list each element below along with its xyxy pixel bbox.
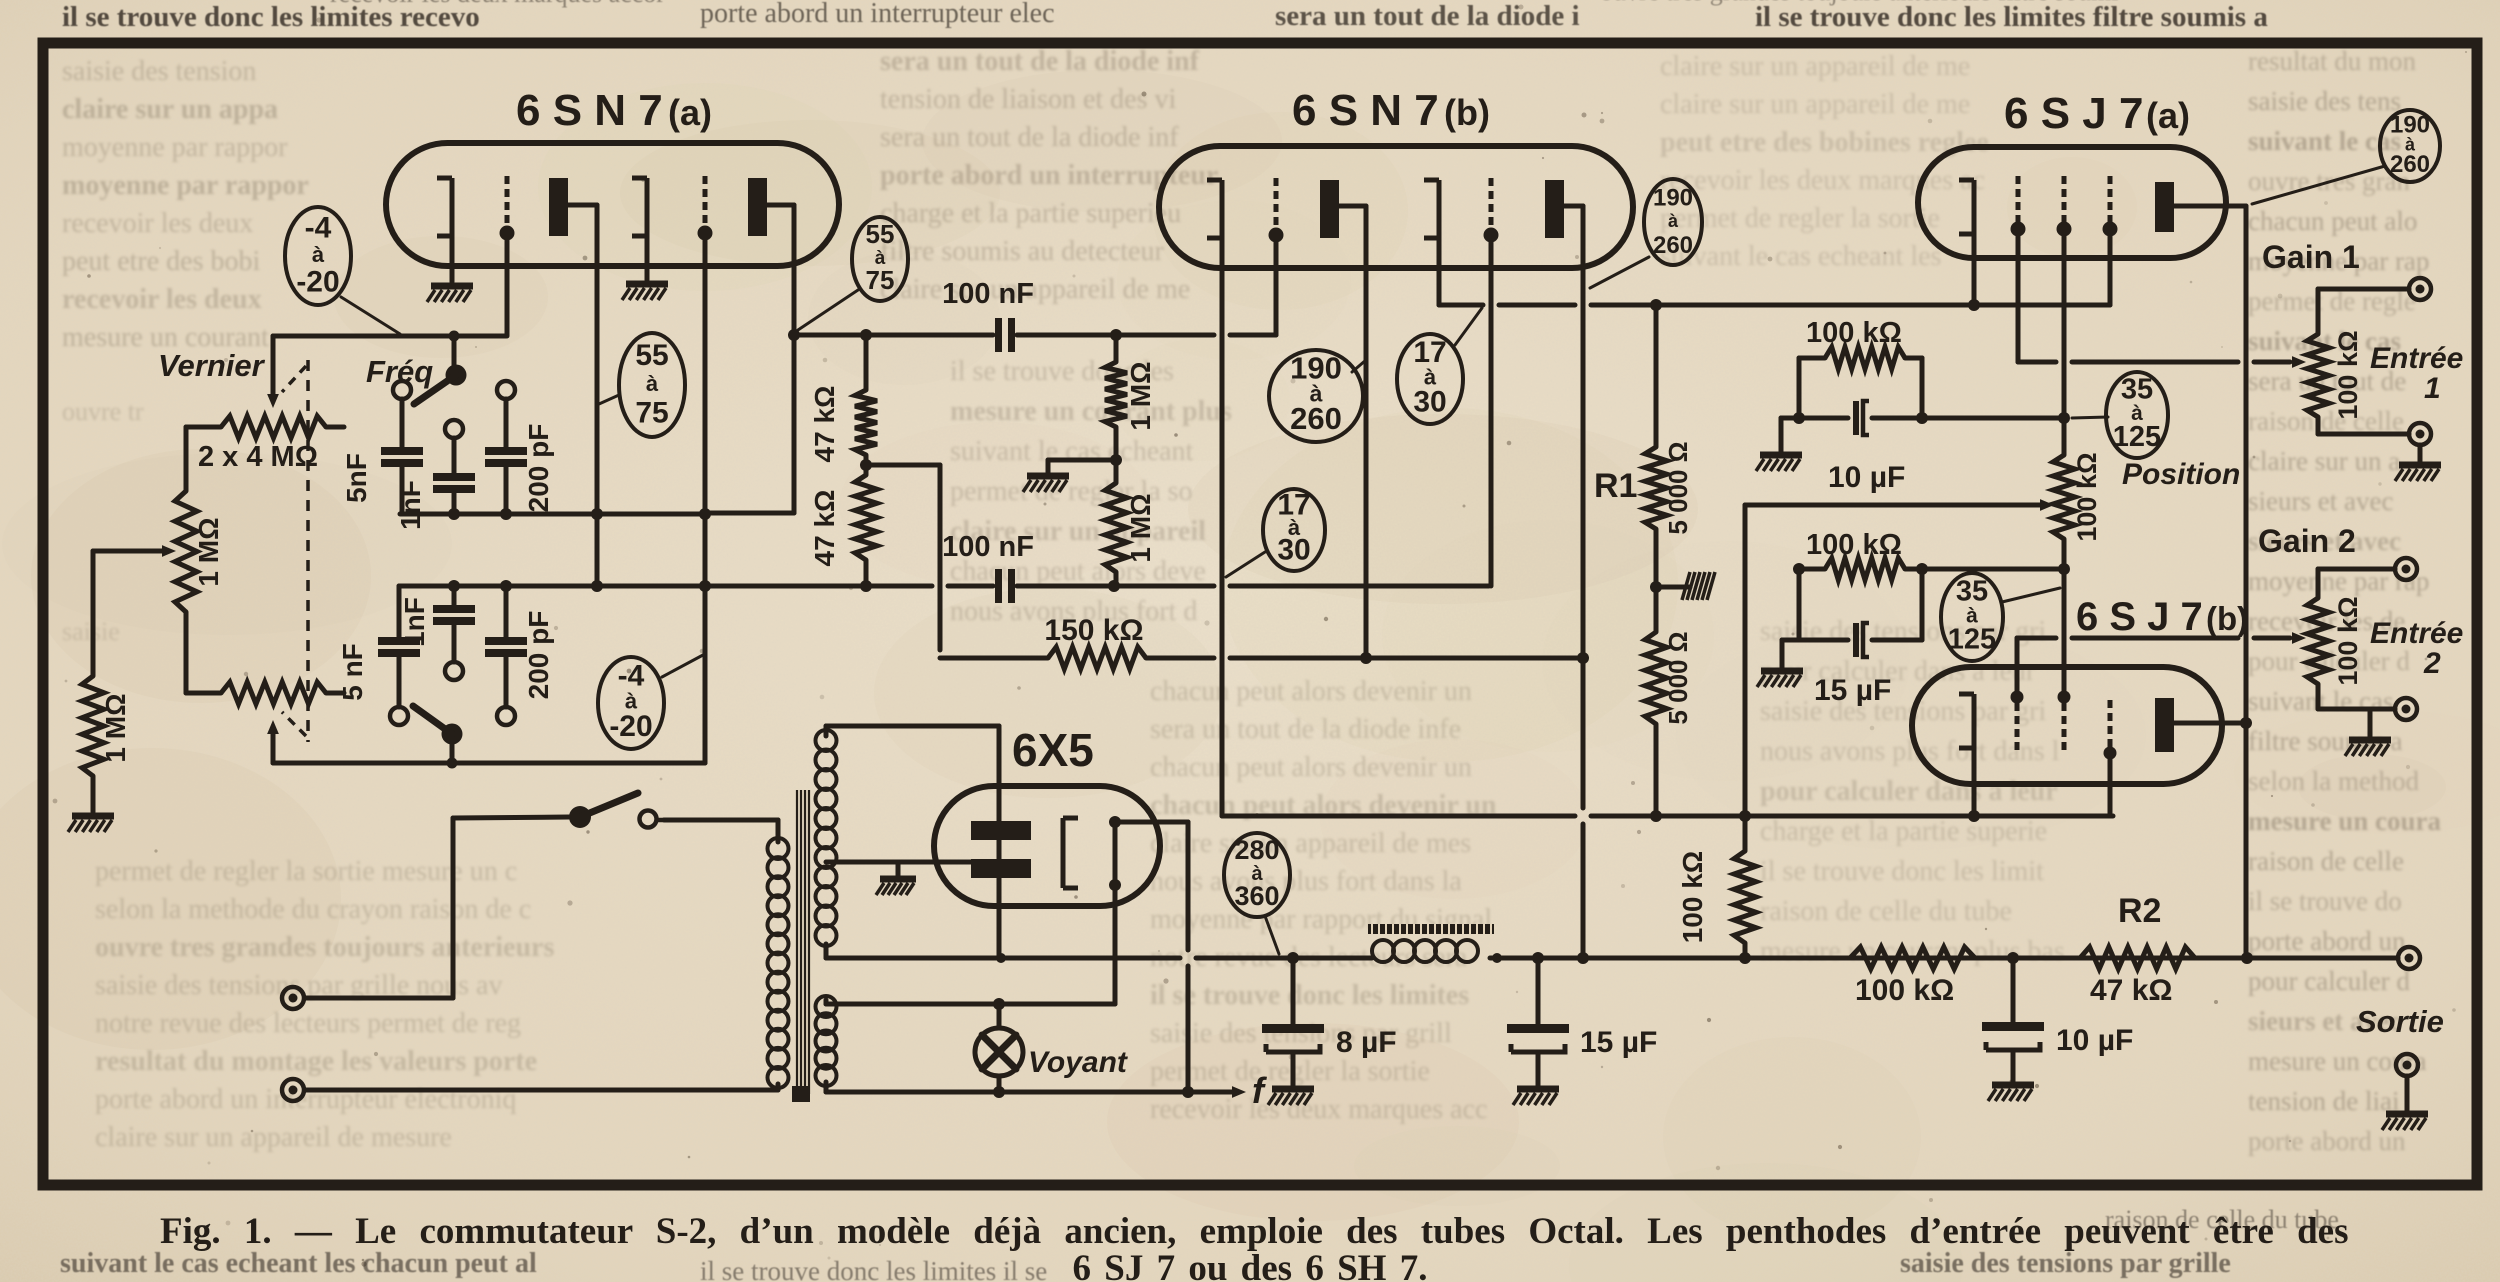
- node plate2 V1 coupling: [788, 329, 800, 341]
- svg-text:sera un tout de la diode inf: sera un tout de la diode inf: [880, 46, 1200, 77]
- wire cathode2 V1 to ground: [645, 236, 650, 280]
- leader 55-75 plate1: [599, 395, 619, 404]
- svg-text:sera un tout de la diode i: sera un tout de la diode i: [1275, 0, 1580, 32]
- wire heater bottom: [824, 1082, 829, 1092]
- tube V5 6X5 label: [1012, 724, 1094, 776]
- wire plate2 V1 down: [705, 205, 794, 513]
- label 100k fb1: [1806, 317, 1902, 349]
- resistor R2b 47k: [2080, 947, 2195, 969]
- svg-text:2 x 4 MΩ: 2 x 4 MΩ: [198, 441, 318, 473]
- loop fb2: [1782, 569, 1922, 640]
- svg-text:permet de regler la sortie: permet de regler la sortie: [1150, 1056, 1430, 1087]
- node grid2 cross: [699, 508, 711, 520]
- tube V2 grid 1: [1269, 178, 1284, 243]
- svg-text:resultat du montage les valeur: resultat du montage les valeurs porte: [95, 1046, 537, 1077]
- svg-text:mesure un courant plus bas: mesure un courant plus bas: [1760, 936, 2065, 967]
- terminal Entree1 cold: [2409, 423, 2431, 445]
- svg-text:saisie des tensions par grille: saisie des tensions par grille: [1900, 1248, 2231, 1279]
- svg-text:à: à: [646, 371, 659, 396]
- label 8uF: [1336, 1026, 1397, 1059]
- label 1nF lower: [399, 597, 430, 647]
- ground cathode2 V1: [622, 284, 668, 300]
- screen line V4: [1905, 567, 2064, 572]
- switch S1b stub: [450, 744, 455, 763]
- tube V4 6SJ7(b) label: [2076, 595, 2248, 639]
- wiper 1 Mohm vernier: [93, 545, 176, 676]
- choke winding: [1372, 940, 1478, 962]
- label Entree2 pot: [2333, 596, 2363, 685]
- terminal mains 2: [282, 1079, 304, 1101]
- svg-text:Fig. 1. — Le commutateur S-2,: Fig. 1. — Le commutateur S-2, d’un modèl…: [160, 1211, 2348, 1252]
- label 1nF upper: [395, 480, 426, 530]
- transformer core: [792, 790, 810, 1102]
- svg-text:Entrée: Entrée: [2370, 617, 2463, 650]
- svg-text:10 µF: 10 µF: [2056, 1024, 2133, 1057]
- tube V4 6SJ7(b) envelope: [1912, 667, 2222, 784]
- svg-text:il se trouve do: il se trouve do: [2248, 886, 2402, 916]
- tube V3 plate: [2155, 182, 2174, 232]
- svg-text:Vernier: Vernier: [158, 348, 266, 383]
- label 100nF lower: [942, 531, 1034, 563]
- svg-text:recevoir les deux: recevoir les deux: [62, 208, 253, 239]
- wire grid1 V3 to pot: [2018, 235, 2306, 368]
- heater line: [826, 1002, 1115, 1007]
- wire grid2 V1 down to bias bus: [703, 239, 708, 763]
- svg-text:saisie des tensions par gri: saisie des tensions par gri: [1760, 696, 2046, 727]
- svg-text:47 kΩ: 47 kΩ: [809, 386, 840, 463]
- terminal mains 1: [282, 987, 304, 1009]
- wire grid2 V4 up: [2062, 569, 2067, 691]
- label 200pF upper: [523, 424, 554, 513]
- label 47k upper: [809, 386, 840, 463]
- svg-text:ouvre tres grandes toujours an: ouvre tres grandes toujours anterieurs: [95, 932, 554, 963]
- node 200pF lower: [500, 580, 512, 592]
- leader -4/-20 lower: [662, 655, 703, 677]
- tube V2 6SN7(b) label: [1292, 86, 1490, 135]
- node fb2 right: [1916, 563, 1928, 575]
- tube V3 cathode: [1959, 180, 1974, 234]
- ground 10uF out: [1988, 1085, 2034, 1101]
- svg-text:-20: -20: [296, 265, 339, 298]
- node lamp bottom: [993, 1086, 1005, 1098]
- svg-text:190: 190: [1653, 185, 1693, 212]
- ground Entree1: [2395, 465, 2441, 481]
- ground stub 1M mid: [1048, 460, 1116, 474]
- label R2: [2118, 892, 2161, 930]
- node 47k bottom on rail B: [860, 580, 872, 592]
- capacitor 1nF lower: [433, 586, 475, 662]
- svg-text:125: 125: [2113, 421, 2161, 453]
- resistor 150 kohm: [940, 647, 1581, 669]
- svg-text:150 kΩ: 150 kΩ: [1044, 614, 1143, 647]
- tube V4 grid2 dots: [2058, 691, 2071, 751]
- svg-text:recevoir les deux: recevoir les deux: [62, 284, 262, 315]
- tube V4 plate: [2155, 698, 2174, 752]
- label 1 Mohm vernier: [193, 517, 224, 586]
- svg-text:permet de regler la so: permet de regler la so: [950, 476, 1193, 507]
- leader 17-30 no2: [1226, 552, 1265, 577]
- callout 190-260 no1: [1269, 350, 1363, 442]
- wire primary top: [664, 820, 778, 842]
- capacitor 200pF lower: [485, 586, 527, 707]
- tube V1 6SN7(a) envelope: [386, 143, 839, 266]
- node coupling 1M: [1110, 329, 1122, 341]
- svg-text:tension de liai: tension de liai: [2248, 1086, 2399, 1116]
- callout 17-30 no2: [1263, 488, 1325, 571]
- tube V5 cathode: [1063, 818, 1078, 888]
- node coupling 47k: [860, 329, 872, 341]
- svg-text:360: 360: [1234, 881, 1279, 911]
- bias line upper: [273, 334, 506, 339]
- svg-text:charge et la partie superie: charge et la partie superie: [1760, 816, 2047, 847]
- ground 15uF: [1513, 1089, 1559, 1105]
- wire switch to primary: [657, 818, 778, 823]
- svg-text:47 kΩ: 47 kΩ: [809, 490, 840, 567]
- svg-text:pour calculer d: pour calculer d: [2248, 966, 2410, 996]
- svg-text:(a): (a): [668, 92, 712, 133]
- capacitor 5nF upper: [381, 399, 423, 514]
- capacitor 15uF: [1507, 958, 1569, 1086]
- label 47k lower: [809, 490, 840, 567]
- tube V3 grid3: [2103, 176, 2118, 237]
- label 100nF upper: [942, 278, 1034, 310]
- leader 35-125 no1: [2072, 417, 2108, 418]
- node R2 out: [2241, 952, 2253, 964]
- ground R1 hatch: [1682, 572, 1715, 600]
- wire cathode1 V1 to ground: [450, 236, 455, 282]
- svg-text:R1: R1: [1594, 467, 1637, 505]
- svg-text:peut etre des bobi: peut etre des bobi: [62, 246, 260, 277]
- terminal Entree1 hot: [2409, 278, 2431, 300]
- label R1: [1594, 467, 1637, 505]
- svg-text:peut etre des bobines reglee: peut etre des bobines reglee: [1660, 127, 1989, 158]
- node plate2 V2 B+: [1577, 952, 1589, 964]
- callout 35-125 no2: [1941, 573, 2003, 661]
- svg-text:6 S J 7: 6 S J 7: [2076, 595, 2203, 639]
- svg-text:2: 2: [2423, 647, 2441, 680]
- tube V4 grid3 dots: [2104, 700, 2117, 760]
- svg-text:6 SJ 7 ou des 6 SH 7.: 6 SJ 7 ou des 6 SH 7.: [1073, 1248, 1428, 1282]
- wire cathode1 V2 down: [1220, 238, 1225, 816]
- tube V4 cathode: [1959, 694, 1974, 748]
- svg-text:100 kΩ: 100 kΩ: [1855, 974, 1954, 1007]
- svg-text:suivant le cas echeant les: suivant le cas echeant les: [1660, 241, 1941, 272]
- switch S1a stub: [452, 341, 457, 367]
- svg-text:raison de celle: raison de celle: [2248, 846, 2404, 876]
- label 5000 ohm a: [1663, 441, 1693, 534]
- caption line 1: [160, 1211, 2348, 1252]
- node V5 line f: [1182, 1086, 1194, 1098]
- svg-text:-4: -4: [305, 211, 332, 244]
- switch S1b lever: [413, 706, 452, 734]
- node 15uF: [1532, 952, 1544, 964]
- potentiometer Position 100k: [2053, 418, 2075, 569]
- node HT feed: [996, 953, 1006, 963]
- capacitor 8uF: [1262, 958, 1324, 1086]
- label Gain 1: [2262, 239, 2360, 275]
- resistor R1a 5000 ohm: [1645, 447, 1667, 529]
- wire Entree2 bottom: [2318, 684, 2395, 709]
- switch Freq label: [366, 354, 433, 389]
- svg-text:claire sur un appareil de me: claire sur un appareil de me: [1660, 89, 1970, 120]
- wire grid2 V3: [2062, 235, 2067, 418]
- wire grid3 V4 down: [2108, 758, 2113, 816]
- node plate1 V1 lower: [591, 580, 603, 592]
- svg-text:260: 260: [2390, 151, 2430, 178]
- label Entree 1: [2370, 342, 2463, 405]
- svg-text:mesure un coura: mesure un coura: [2248, 806, 2441, 836]
- switch S1b contact 200pF: [497, 707, 515, 725]
- svg-text:200 pF: 200 pF: [523, 611, 554, 700]
- svg-text:1 MΩ: 1 MΩ: [1125, 493, 1156, 562]
- svg-text:sera un tout de la diode infe: sera un tout de la diode infe: [1150, 714, 1461, 745]
- svg-text:mesure un courant plus: mesure un courant plus: [950, 396, 1232, 427]
- svg-text:10 µF: 10 µF: [1828, 461, 1905, 494]
- svg-text:nous avons plus fort dans la: nous avons plus fort dans la: [1150, 866, 1462, 897]
- loop fb1: [1799, 358, 1922, 418]
- svg-text:100 kΩ: 100 kΩ: [2333, 596, 2363, 685]
- capacitor 5nF lower: [378, 586, 420, 707]
- label 15uF fb2: [1814, 674, 1891, 707]
- svg-text:chacun peut alors devenir un: chacun peut alors devenir un: [1150, 676, 1472, 707]
- node grid2 V1 on rail B: [699, 580, 711, 592]
- svg-text:-20: -20: [609, 710, 652, 743]
- label 150 kohm: [1044, 614, 1143, 647]
- svg-text:35: 35: [1956, 575, 1988, 607]
- svg-text:raison de celle du tube: raison de celle du tube: [1760, 896, 2012, 927]
- tube V2 6SN7(b) envelope: [1159, 146, 1633, 268]
- wire grid1 V1 to bias line: [505, 239, 510, 336]
- ground fb1: [1756, 455, 1802, 471]
- node grid2 V3: [2058, 412, 2070, 424]
- svg-text:pour calculer dans a leur: pour calculer dans a leur: [1760, 776, 2058, 807]
- svg-text:nous avons plus fort dans l: nous avons plus fort dans l: [1760, 736, 2060, 767]
- tube V5 heater bar: [1113, 822, 1118, 885]
- terminal Sortie: [2398, 947, 2420, 969]
- svg-text:claire sur un appareil de me: claire sur un appareil de me: [1660, 51, 1970, 82]
- svg-text:à: à: [312, 242, 325, 267]
- transformer HT secondary: [816, 730, 837, 946]
- svg-text:saisie des tens: saisie des tens: [2248, 86, 2401, 116]
- tube V3 grid1: [2011, 176, 2026, 237]
- potentiometer 1 Mohm vernier: [175, 427, 197, 693]
- svg-text:5nF: 5nF: [341, 453, 372, 503]
- mains switch lever: [580, 793, 638, 817]
- wire Entree1 top: [2318, 289, 2409, 334]
- leader 280-360: [1265, 916, 1279, 954]
- node fb2 left: [1793, 563, 1805, 575]
- switch S1a lever: [414, 375, 456, 404]
- node 100k vert B+: [1739, 952, 1751, 964]
- tube V1 grid 1: [500, 176, 515, 241]
- leader 190-260 no3: [2252, 166, 2385, 204]
- svg-text:il se trouve donc les limit: il se trouve donc les limit: [1760, 856, 2044, 887]
- node R1/rail2: [1650, 810, 1662, 822]
- svg-text:1 MΩ: 1 MΩ: [100, 693, 131, 762]
- ground 1M mid: [1023, 476, 1069, 492]
- label 2x4 Mohm: [198, 441, 318, 473]
- node between 47k: [860, 459, 872, 471]
- svg-text:100 kΩ: 100 kΩ: [2072, 452, 2102, 541]
- label Gain 2: [2258, 523, 2356, 559]
- switch S1b common: [442, 724, 463, 745]
- label 5nF lower: [337, 643, 368, 701]
- node 5nF bus: [448, 508, 460, 520]
- svg-text:claire sur un appareil de me: claire sur un appareil de me: [880, 274, 1190, 305]
- tube V1 6SN7(a) label: [516, 86, 712, 135]
- svg-text:Gain 2: Gain 2: [2258, 523, 2356, 559]
- wire plate V4 right: [2174, 721, 2246, 726]
- label Position: [2122, 458, 2240, 491]
- wiper arm upper pot: [267, 336, 279, 408]
- svg-text:75: 75: [635, 396, 668, 429]
- svg-text:15 µF: 15 µF: [1580, 1026, 1657, 1059]
- label 1M no2: [1125, 493, 1156, 562]
- wire switch left: [305, 817, 569, 998]
- choke core bar: [1368, 924, 1494, 934]
- label 1M no1: [1125, 361, 1156, 430]
- svg-text:porte abord un interrupteur el: porte abord un interrupteur elec: [700, 0, 1055, 29]
- label 15uF: [1580, 1026, 1657, 1059]
- node plate V4 bus: [2240, 717, 2252, 729]
- label 100k vertical: [1677, 851, 1708, 944]
- node S1b bias: [447, 758, 458, 769]
- svg-text:R2: R2: [2118, 892, 2161, 930]
- resistor 1 Mohm no1: [1105, 335, 1127, 460]
- svg-text:75: 75: [866, 265, 895, 295]
- ground stub fb1: [1779, 418, 1784, 452]
- svg-text:(a): (a): [2146, 95, 2190, 136]
- label 5nF upper: [341, 453, 372, 503]
- resistor 1 Mohm no2: [1105, 460, 1127, 586]
- svg-text:ouvre tres grandes toujours an: ouvre tres grandes toujours anterieurs f…: [1600, 0, 2118, 6]
- ground cathode1 V1: [427, 286, 473, 302]
- callout 55-75 plate1 V1: [619, 333, 685, 437]
- mains switch common: [569, 806, 591, 828]
- tube V1 grid 2: [698, 176, 713, 241]
- resistor 1 Mohm to ground: [82, 676, 104, 812]
- svg-text:260: 260: [1653, 232, 1693, 259]
- screen node line V3: [1781, 416, 2064, 421]
- wire rail to R1: [1654, 305, 1659, 447]
- capacitor 1nF upper: [433, 438, 475, 514]
- voltage callout -4 a -20 (upper): [285, 207, 351, 305]
- wire grid3 V3: [2108, 235, 2113, 305]
- wire Sortie gnd: [2405, 1076, 2410, 1112]
- callout 55-75 plate2 V1: [852, 217, 908, 301]
- resistor 100k fb1: [1825, 347, 1905, 369]
- wire Entree1 gnd: [2418, 445, 2423, 463]
- wire HT top: [826, 726, 860, 736]
- node 150k plate2 V2: [1577, 652, 1589, 664]
- terminal Entree2 hot: [2395, 558, 2417, 580]
- switch S1a contact 200pF: [497, 381, 515, 399]
- tube V2 plate 2: [1545, 180, 1564, 238]
- capacitor 10uF fb1: [1853, 401, 1869, 435]
- svg-text:charge et la partie superieu: charge et la partie superieu: [880, 198, 1181, 229]
- svg-text:Entrée: Entrée: [2370, 342, 2463, 375]
- svg-text:35: 35: [2121, 374, 2153, 406]
- svg-text:recevoir les deux marques acco: recevoir les deux marques accor: [330, 0, 665, 8]
- svg-text:30: 30: [1277, 534, 1310, 567]
- svg-text:100 nF: 100 nF: [942, 531, 1034, 563]
- wire plate1 V2 down: [1339, 206, 1366, 658]
- branch 47k mid to 150k: [866, 465, 940, 650]
- svg-text:1nF: 1nF: [399, 597, 430, 647]
- svg-text:30: 30: [1413, 385, 1446, 418]
- svg-text:1: 1: [2424, 372, 2441, 405]
- svg-text:ouvre tr: ouvre tr: [62, 397, 144, 426]
- wire HT bottom to B+ rail: [824, 944, 829, 958]
- svg-text:Position: Position: [2122, 458, 2240, 491]
- tube V2 grid 2: [1484, 178, 1499, 243]
- ground fb2: [1757, 671, 1803, 687]
- callout 280-360: [1224, 833, 1290, 917]
- resistor 47k upper: [855, 335, 877, 455]
- label 200pF lower: [523, 611, 554, 700]
- svg-text:1nF: 1nF: [395, 480, 426, 530]
- wire grid1 V2: [1274, 241, 1279, 335]
- svg-text:15 µF: 15 µF: [1814, 674, 1891, 707]
- label 100k fb2: [1806, 529, 1902, 561]
- filament line f: [826, 1086, 1246, 1098]
- svg-text:100 nF: 100 nF: [942, 278, 1034, 310]
- svg-text:6 S N 7: 6 S N 7: [516, 86, 663, 135]
- potentiometer Entree1 100k: [2307, 334, 2329, 417]
- wire V5 to heater line: [1113, 885, 1118, 1004]
- resistor R1b 5000 ohm: [1645, 632, 1667, 724]
- potentiometer 2x4 Mohm lower half: [186, 682, 344, 704]
- lamp Voyant: [975, 1004, 1023, 1092]
- node 1nF lower: [448, 580, 460, 592]
- label Entree1 pot: [2333, 330, 2363, 419]
- B+ rail: [826, 956, 2398, 961]
- caption line 2: [1073, 1248, 1428, 1282]
- tube V1 cathode 1: [437, 178, 452, 236]
- node 100k/rail2: [1739, 810, 1751, 822]
- svg-text:filtre soumis au detecteur: filtre soumis au detecteur: [880, 236, 1164, 267]
- svg-text:resultat du mon: resultat du mon: [2248, 46, 2416, 76]
- wire plate1 V1 down: [568, 205, 597, 586]
- node fb1 left: [1793, 412, 1805, 424]
- coupling line plate2-V1 to grid1-V2: [794, 333, 1276, 338]
- svg-text:selon la methode du crayon rai: selon la methode du crayon raison de c: [95, 894, 531, 925]
- ground Entree2: [2345, 740, 2391, 756]
- wiper arm lower pot: [267, 720, 279, 763]
- svg-text:saisie des tension: saisie des tension: [62, 56, 256, 87]
- rail B long bus: [399, 584, 1489, 589]
- svg-text:recevoir les deux marques ac: recevoir les deux marques ac: [1660, 165, 1985, 196]
- switch S1b contact 1nF: [445, 662, 463, 680]
- svg-text:moyenne par rappor: moyenne par rappor: [62, 170, 309, 201]
- svg-text:100 kΩ: 100 kΩ: [2333, 330, 2363, 419]
- label f: [1252, 1070, 1267, 1111]
- svg-text:6X5: 6X5: [1012, 724, 1094, 776]
- node fb1 right: [1916, 412, 1928, 424]
- label Sortie: [2356, 1004, 2444, 1039]
- wire cathode2 V2: [1437, 238, 1442, 305]
- node V5 top: [1109, 816, 1121, 828]
- leader 55-75 plate2: [798, 290, 858, 330]
- tube V5 plate bars: [971, 821, 1031, 878]
- svg-text:Fréq: Fréq: [366, 354, 433, 389]
- svg-text:1 MΩ: 1 MΩ: [1125, 361, 1156, 430]
- tube V1 cathode 2: [632, 178, 647, 236]
- svg-text:5 000 Ω: 5 000 Ω: [1663, 631, 1693, 724]
- capacitor 15uF fb2: [1853, 623, 1869, 657]
- tube V3 grid2: [2057, 176, 2072, 237]
- node bias/switch: [449, 331, 460, 342]
